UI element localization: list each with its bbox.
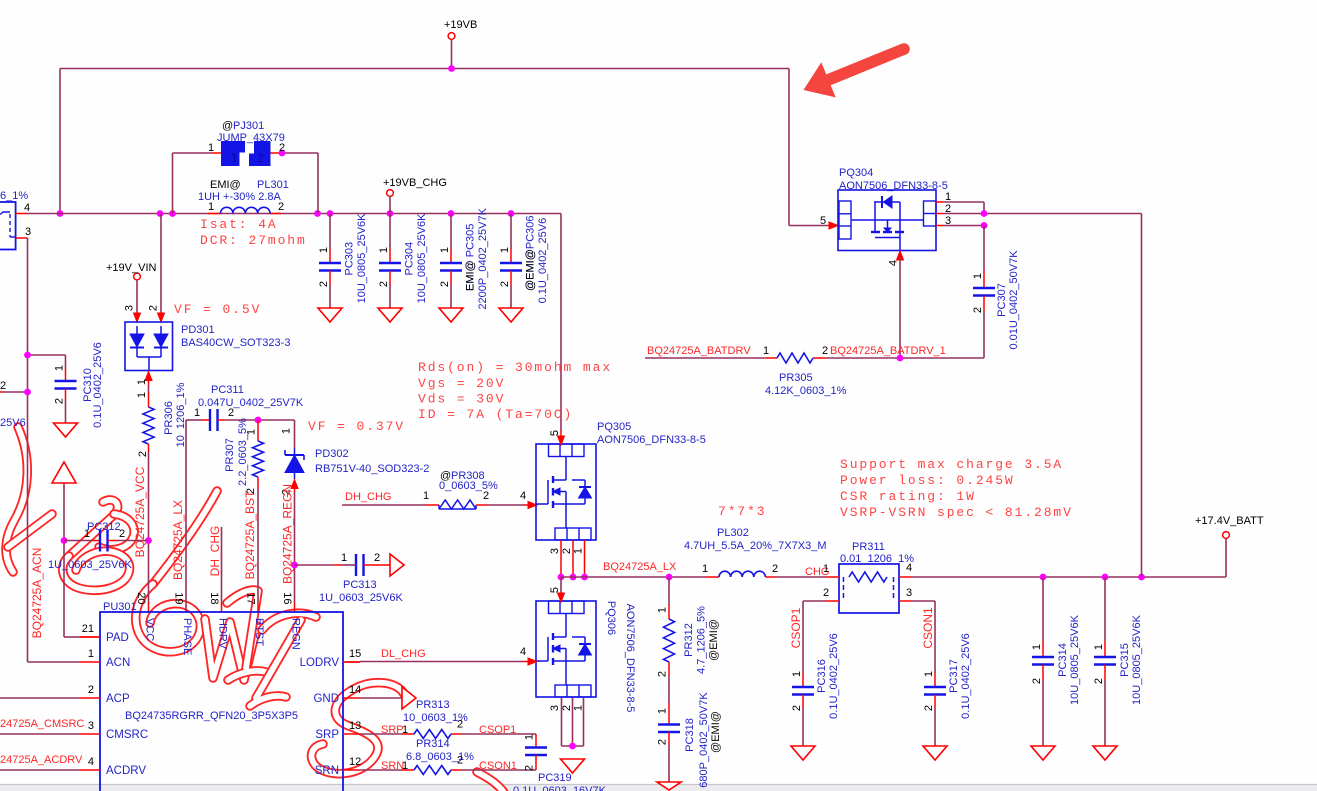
svg-text:BAS40CW_SOT323-3: BAS40CW_SOT323-3 — [181, 337, 290, 349]
svg-text:4: 4 — [520, 490, 526, 502]
svg-text:10U_0805_25V6K: 10U_0805_25V6K — [416, 213, 428, 304]
svg-text:1: 1 — [657, 708, 669, 714]
svg-text:2: 2 — [561, 548, 573, 554]
svg-text:1: 1 — [439, 247, 451, 253]
svg-text:PQ306: PQ306 — [605, 601, 617, 635]
svg-text:10U_0805_25V6K: 10U_0805_25V6K — [1131, 614, 1143, 705]
svg-text:2: 2 — [823, 587, 829, 599]
svg-text:3: 3 — [25, 226, 31, 238]
svg-text:PC313: PC313 — [343, 579, 377, 591]
svg-text:PC314: PC314 — [1057, 643, 1069, 677]
svg-text:+19VB: +19VB — [444, 19, 477, 31]
svg-text:2: 2 — [228, 407, 234, 419]
svg-text:DCR: 27mohm: DCR: 27mohm — [200, 233, 307, 248]
svg-text:2: 2 — [374, 552, 380, 564]
svg-text:+19V_VIN: +19V_VIN — [106, 262, 157, 274]
svg-text:PC311: PC311 — [211, 384, 244, 396]
svg-text:0.1U_0402_25V6: 0.1U_0402_25V6 — [960, 633, 972, 719]
svg-text:PR313: PR313 — [416, 699, 450, 711]
svg-text:+17.4V_BATT: +17.4V_BATT — [1195, 515, 1264, 527]
svg-text:19: 19 — [173, 592, 185, 604]
svg-text:0.01U_0402_50V7K: 0.01U_0402_50V7K — [1008, 250, 1020, 350]
svg-text:PL301: PL301 — [257, 179, 289, 191]
svg-text:SRN: SRN — [381, 760, 404, 772]
svg-text:BQ24735RGRR_QFN20_3P5X3P5: BQ24735RGRR_QFN20_3P5X3P5 — [125, 710, 298, 722]
svg-text:PR307: PR307 — [224, 438, 236, 472]
svg-text:2: 2 — [119, 528, 125, 540]
svg-text:1U_0603_25V6K: 1U_0603_25V6K — [319, 592, 403, 604]
svg-text:REGN: REGN — [290, 618, 302, 650]
svg-text:1: 1 — [1031, 644, 1043, 650]
svg-text:2: 2 — [88, 684, 94, 696]
svg-text:SRP: SRP — [315, 729, 339, 741]
svg-text:2: 2 — [1031, 678, 1043, 684]
svg-text:2: 2 — [657, 739, 669, 745]
svg-text:RB751V-40_SOD323-2: RB751V-40_SOD323-2 — [315, 463, 429, 475]
svg-text:2: 2 — [148, 305, 160, 311]
svg-text:CSR rating: 1W: CSR rating: 1W — [840, 489, 976, 504]
svg-text:PQ304: PQ304 — [839, 167, 873, 179]
svg-text:2: 2 — [457, 755, 463, 767]
svg-text:BQ24725A_VCC: BQ24725A_VCC — [133, 466, 147, 557]
svg-text:21: 21 — [82, 623, 94, 635]
svg-text:2: 2 — [772, 563, 778, 575]
svg-text:PD301: PD301 — [181, 324, 215, 336]
svg-text:1: 1 — [136, 379, 148, 385]
svg-text:CSON1: CSON1 — [479, 760, 517, 772]
svg-text:3: 3 — [124, 305, 136, 311]
svg-text:Vgs = 20V: Vgs = 20V — [418, 376, 505, 391]
svg-text:2: 2 — [378, 281, 390, 287]
svg-text:GND: GND — [313, 693, 339, 705]
svg-text:1U_0603_25V6K: 1U_0603_25V6K — [48, 559, 132, 571]
svg-text:@EMI@: @EMI@ — [710, 711, 722, 753]
svg-text:10U_0805_25V6K: 10U_0805_25V6K — [1069, 614, 1081, 705]
svg-text:LODRV: LODRV — [300, 657, 340, 669]
svg-text:PHASE: PHASE — [181, 618, 193, 655]
svg-text:PR312: PR312 — [683, 623, 695, 657]
svg-text:1UH +-30% 2.8A: 1UH +-30% 2.8A — [198, 191, 282, 203]
svg-text:680P_0402_50V7K: 680P_0402_50V7K — [698, 692, 710, 788]
svg-text:CMSRC: CMSRC — [106, 729, 148, 741]
svg-text:Vds = 30V: Vds = 30V — [418, 392, 505, 407]
svg-text:2.2_0603_5%: 2.2_0603_5% — [237, 418, 249, 486]
svg-text:1: 1 — [823, 563, 829, 575]
svg-text:SRP: SRP — [381, 724, 404, 736]
svg-text:1: 1 — [972, 273, 984, 279]
svg-text:2: 2 — [137, 451, 149, 457]
svg-text:PC317: PC317 — [948, 659, 960, 693]
svg-text:24725A_ACDRV: 24725A_ACDRV — [0, 754, 83, 766]
svg-text:PC319: PC319 — [538, 772, 572, 784]
svg-text:2: 2 — [561, 705, 573, 711]
svg-text:BQ24725A_REGN: BQ24725A_REGN — [281, 484, 295, 584]
svg-text:PQ305: PQ305 — [597, 421, 631, 433]
svg-text:PR305: PR305 — [779, 372, 813, 384]
svg-text:EMI@: EMI@ — [210, 179, 241, 191]
svg-text:2: 2 — [318, 281, 330, 287]
svg-text:2: 2 — [1093, 678, 1105, 684]
svg-text:PC307: PC307 — [996, 283, 1008, 317]
svg-text:SRN: SRN — [315, 765, 339, 777]
svg-text:2: 2 — [657, 671, 669, 677]
svg-text:Rds(on) = 30mohm max: Rds(on) = 30mohm max — [418, 360, 612, 375]
svg-text:1: 1 — [378, 247, 390, 253]
svg-text:Power loss: 0.245W: Power loss: 0.245W — [840, 473, 1015, 488]
svg-text:AON7506_DFN33-8-5: AON7506_DFN33-8-5 — [624, 604, 636, 713]
svg-text:@: @ — [222, 120, 233, 132]
svg-text:17: 17 — [245, 592, 257, 604]
svg-text:VF = 0.5V: VF = 0.5V — [174, 302, 261, 317]
svg-text:14: 14 — [349, 684, 361, 696]
svg-text:PR306: PR306 — [163, 401, 175, 435]
svg-text:5: 5 — [549, 587, 561, 593]
svg-text:EMI@: EMI@ — [465, 257, 477, 291]
svg-text:1: 1 — [499, 247, 511, 253]
svg-text:CSON1: CSON1 — [921, 607, 935, 649]
svg-text:BQ24725A_BATDRV_1: BQ24725A_BATDRV_1 — [830, 345, 946, 357]
svg-text:VF = 0.37V: VF = 0.37V — [308, 419, 405, 434]
svg-text:BQ24725A_BATDRV: BQ24725A_BATDRV — [647, 345, 751, 357]
svg-text:4.12K_0603_1%: 4.12K_0603_1% — [765, 385, 847, 397]
svg-text:12: 12 — [349, 756, 361, 768]
svg-text:1: 1 — [281, 428, 293, 434]
svg-text:1: 1 — [1093, 644, 1105, 650]
svg-text:HDRV: HDRV — [217, 618, 229, 650]
svg-text:CSOP1: CSOP1 — [479, 724, 516, 736]
svg-text:PR311: PR311 — [852, 541, 885, 553]
svg-text:BTST: BTST — [253, 618, 265, 646]
svg-text:24725A_CMSRC: 24725A_CMSRC — [0, 718, 84, 730]
svg-text:4.7_1206_5%: 4.7_1206_5% — [696, 606, 708, 674]
svg-text:BQ24725A_ACN: BQ24725A_ACN — [30, 548, 44, 639]
svg-text:0.01_1206_1%: 0.01_1206_1% — [840, 553, 914, 565]
svg-text:2: 2 — [972, 307, 984, 313]
svg-text:ACP: ACP — [106, 693, 130, 705]
svg-text:5: 5 — [820, 215, 826, 227]
svg-text:4.7UH_5.5A_20%_7X7X3_M: 4.7UH_5.5A_20%_7X7X3_M — [684, 540, 826, 552]
svg-text:1: 1 — [88, 648, 94, 660]
svg-text:PR314: PR314 — [416, 738, 450, 750]
svg-text:10U_0805_25V6K: 10U_0805_25V6K — [356, 213, 368, 304]
svg-text:PJ301: PJ301 — [233, 120, 264, 132]
svg-text:3: 3 — [88, 720, 94, 732]
svg-text:4: 4 — [24, 202, 30, 214]
svg-text:PU301: PU301 — [103, 601, 137, 613]
svg-text:Isat: 4A: Isat: 4A — [200, 217, 278, 232]
svg-text:3: 3 — [549, 548, 561, 554]
svg-text:6.8_0603_1%: 6.8_0603_1% — [406, 751, 474, 763]
svg-text:1: 1 — [84, 528, 90, 540]
svg-text:3: 3 — [549, 705, 561, 711]
svg-text:2200P_0402_25V7K: 2200P_0402_25V7K — [477, 207, 489, 309]
svg-text:2: 2 — [923, 705, 935, 711]
svg-text:20: 20 — [135, 592, 147, 604]
svg-text:3: 3 — [906, 587, 912, 599]
svg-text:PC312: PC312 — [87, 521, 121, 533]
svg-text:4: 4 — [520, 646, 526, 658]
svg-text:2: 2 — [257, 151, 264, 165]
svg-text:25V6: 25V6 — [0, 417, 26, 429]
svg-text:5: 5 — [549, 430, 561, 436]
svg-text:DH_CHG: DH_CHG — [345, 491, 391, 503]
svg-text:CSOP1: CSOP1 — [789, 607, 803, 648]
svg-text:BQ24725A_LX: BQ24725A_LX — [603, 561, 677, 573]
svg-text:2: 2 — [822, 345, 828, 357]
svg-text:1: 1 — [573, 705, 585, 711]
svg-text:1: 1 — [231, 151, 238, 165]
svg-text:0.1U_0603_16V7K: 0.1U_0603_16V7K — [513, 785, 607, 791]
svg-text:VCC: VCC — [144, 618, 156, 641]
svg-text:1: 1 — [702, 563, 708, 575]
svg-text:DL_CHG: DL_CHG — [381, 648, 426, 660]
svg-text:@EMI@: @EMI@ — [708, 619, 720, 661]
svg-text:2: 2 — [54, 398, 66, 404]
svg-text:2: 2 — [457, 719, 463, 731]
svg-text:PC318: PC318 — [684, 718, 696, 752]
svg-text:PC303: PC303 — [344, 242, 356, 276]
svg-text:@EMI@: @EMI@ — [525, 249, 537, 291]
svg-text:6_1%: 6_1% — [0, 190, 28, 202]
svg-text:PD302: PD302 — [315, 448, 349, 460]
svg-text:BQ24725A_BST: BQ24725A_BST — [243, 490, 257, 579]
svg-text:15: 15 — [349, 648, 361, 660]
svg-text:1: 1 — [573, 548, 585, 554]
svg-text:18: 18 — [208, 592, 220, 604]
svg-text:2: 2 — [791, 705, 803, 711]
svg-text:1: 1 — [54, 365, 66, 371]
svg-text:+19VB_CHG: +19VB_CHG — [383, 177, 447, 189]
svg-text:PC316: PC316 — [816, 659, 828, 693]
svg-text:0.047U_0402_25V7K: 0.047U_0402_25V7K — [198, 397, 304, 409]
svg-text:1: 1 — [208, 142, 214, 154]
svg-text:AON7506_DFN33-8-5: AON7506_DFN33-8-5 — [839, 180, 948, 192]
svg-text:2: 2 — [0, 380, 6, 392]
svg-text:0.1U_0402_25V6: 0.1U_0402_25V6 — [828, 633, 840, 719]
svg-text:1: 1 — [318, 247, 330, 253]
svg-text:1: 1 — [194, 407, 200, 419]
svg-text:1: 1 — [136, 392, 148, 398]
svg-text:ACDRV: ACDRV — [106, 765, 146, 777]
svg-text:4: 4 — [88, 756, 94, 768]
svg-text:0_0603_5%: 0_0603_5% — [439, 480, 498, 492]
svg-text:ID = 7A (Ta=70C): ID = 7A (Ta=70C) — [418, 407, 573, 422]
svg-text:PAD: PAD — [106, 632, 129, 644]
svg-text:1: 1 — [657, 607, 669, 613]
svg-text:AON7506_DFN33-8-5: AON7506_DFN33-8-5 — [597, 434, 706, 446]
svg-text:0.1U_0402_25V6: 0.1U_0402_25V6 — [92, 342, 104, 428]
svg-text:ACN: ACN — [106, 657, 130, 669]
svg-text:Support max charge 3.5A: Support max charge 3.5A — [840, 457, 1063, 472]
svg-text:16: 16 — [281, 592, 293, 604]
svg-text:BQ24725A_LX: BQ24725A_LX — [171, 500, 185, 580]
svg-text:1: 1 — [341, 552, 347, 564]
svg-text:7*7*3: 7*7*3 — [718, 504, 767, 519]
svg-text:4: 4 — [888, 260, 900, 266]
svg-text:PC315: PC315 — [1119, 643, 1131, 677]
svg-text:VSRP-VSRN spec < 81.28mV: VSRP-VSRN spec < 81.28mV — [840, 505, 1073, 520]
svg-text:2: 2 — [524, 765, 536, 771]
svg-text:DH_CHG: DH_CHG — [208, 526, 222, 577]
svg-text:0.1U_0402_25V6: 0.1U_0402_25V6 — [537, 218, 549, 304]
svg-text:1: 1 — [763, 345, 769, 357]
svg-text:1: 1 — [923, 671, 935, 677]
svg-text:1: 1 — [524, 734, 536, 740]
svg-text:JUMP_43X79: JUMP_43X79 — [217, 132, 285, 144]
svg-text:13: 13 — [349, 720, 361, 732]
svg-text:PL302: PL302 — [717, 527, 749, 539]
svg-text:2: 2 — [439, 281, 451, 287]
svg-text:1: 1 — [791, 671, 803, 677]
svg-text:PC304: PC304 — [404, 242, 416, 276]
svg-text:1: 1 — [423, 490, 429, 502]
svg-text:2: 2 — [499, 281, 511, 287]
